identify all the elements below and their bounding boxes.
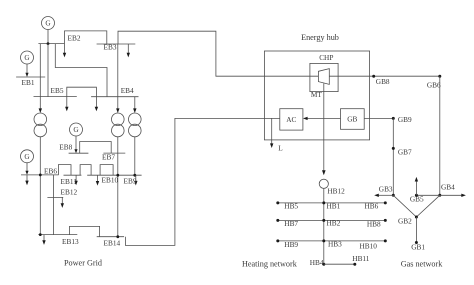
svg-text:HB8: HB8 xyxy=(367,219,381,228)
node dot HB1 xyxy=(322,201,325,204)
heat pipe HB7-HB2-HB8 xyxy=(278,219,386,221)
node dot GB4 xyxy=(438,194,441,197)
wire EB5-EB4 tie with load arrows xyxy=(65,87,98,111)
bus EB5 xyxy=(34,96,77,98)
generator G1 at EB2 xyxy=(42,17,55,30)
wire GB to AC with arrow xyxy=(303,117,341,120)
wire G3 to EB8 xyxy=(74,136,77,153)
load arrow EB2 xyxy=(63,44,66,58)
wire EB8-EB7 tie xyxy=(80,142,112,154)
bus EB13 xyxy=(38,234,77,236)
bus EB11 xyxy=(64,174,82,176)
node dot EB6 xyxy=(39,174,42,177)
svg-text:G: G xyxy=(45,19,51,28)
heat source node HB12 xyxy=(319,179,328,188)
CHP gas line through hub xyxy=(264,75,369,77)
transformer T1 (EB5-EB6) xyxy=(34,113,47,137)
wire G1 to EB2 xyxy=(47,30,49,44)
gas flow arrow GB3 xyxy=(374,194,393,197)
node dot EB9-T3 xyxy=(133,174,136,177)
svg-text:HB7: HB7 xyxy=(284,219,298,228)
svg-text:HB2: HB2 xyxy=(327,219,341,228)
node dot EB13 xyxy=(39,233,42,236)
svg-text:GB6: GB6 xyxy=(427,80,441,89)
wire G4 to EB6 xyxy=(25,163,28,175)
load arrow EB9 xyxy=(134,175,137,185)
svg-text:EB11: EB11 xyxy=(61,177,78,186)
node dot GB6 xyxy=(438,75,441,78)
transformer T3 (EB4-EB9) xyxy=(129,113,142,137)
wire T2 through EB7 to EB9 and EB14 xyxy=(117,137,119,237)
node dot EB9-T2 xyxy=(116,174,119,177)
gas pipe GB2-GB1 xyxy=(415,217,417,243)
svg-text:GB8: GB8 xyxy=(376,77,390,86)
node dot HB4 xyxy=(322,263,325,266)
svg-text:EB5: EB5 xyxy=(51,86,64,95)
wire EB6-EB11 tie xyxy=(58,165,71,176)
wire G2 to EB1 xyxy=(25,64,28,77)
node dot GB7 xyxy=(392,147,395,150)
node dot GB9 xyxy=(392,117,395,120)
load arrow EB3 xyxy=(127,44,130,57)
wire T3 to EB9 xyxy=(134,137,136,175)
wire EB2-EB5 xyxy=(47,44,49,97)
transformer T2 (EB4-EB7) xyxy=(112,113,125,137)
wire EB6-EB12-EB13 xyxy=(53,175,55,235)
wire EB3 to energy hub CHP xyxy=(118,31,264,76)
heat pipe HB4-HB11 xyxy=(324,263,355,265)
node dot HB6 xyxy=(384,201,387,204)
svg-text:GB9: GB9 xyxy=(398,115,412,124)
generator G3 at EB8 xyxy=(70,123,83,136)
svg-text:HB1: HB1 xyxy=(327,201,341,210)
svg-text:Power Grid: Power Grid xyxy=(64,258,102,267)
bus EB6 xyxy=(21,174,59,176)
load arrow EB6 xyxy=(25,175,28,185)
node dot GB8 xyxy=(372,75,375,78)
svg-text:GB5: GB5 xyxy=(410,194,424,203)
GB box xyxy=(341,109,365,130)
svg-text:HB4: HB4 xyxy=(310,258,324,267)
node dot HB3 xyxy=(322,239,325,242)
svg-text:L: L xyxy=(278,143,283,152)
heat pipe HB5-HB1-HB6 xyxy=(278,202,386,204)
svg-text:G: G xyxy=(73,125,79,134)
heat trunk HB12-HB4 xyxy=(323,188,325,264)
gas pipe GB4-GB2 xyxy=(416,195,439,217)
svg-text:CHP: CHP xyxy=(319,53,333,62)
bus EB8 xyxy=(69,152,89,154)
arrow into transformer T1 xyxy=(39,108,42,113)
CHP box xyxy=(310,63,338,91)
node dot HB2 xyxy=(322,219,325,222)
wire T1 to EB6 and EB6-EB13 xyxy=(39,137,41,235)
svg-text:HB9: HB9 xyxy=(284,240,298,249)
load L arrow xyxy=(270,118,273,148)
node dot HB11 xyxy=(353,263,356,266)
svg-text:EB10: EB10 xyxy=(102,175,119,184)
gas pipe GB8-GB6 xyxy=(370,75,440,77)
bus EB2 xyxy=(38,43,64,45)
microturbine MT symbol xyxy=(318,69,329,85)
node dot GB5 xyxy=(415,194,418,197)
heat wire MT to HB12 xyxy=(322,84,326,176)
bus EB10-EB9 xyxy=(87,174,141,176)
svg-text:EB3: EB3 xyxy=(104,43,117,52)
energy hub box xyxy=(264,51,369,140)
arrow into transformer T3 xyxy=(133,108,136,113)
AC box xyxy=(280,109,303,130)
node dot HB7 xyxy=(276,219,279,222)
svg-text:HB10: HB10 xyxy=(360,242,378,251)
node dot HB8 xyxy=(384,219,387,222)
svg-text:G: G xyxy=(24,54,29,62)
bus EB1 xyxy=(16,76,45,78)
generator G4 at EB6 xyxy=(21,150,34,163)
svg-text:EB8: EB8 xyxy=(59,143,72,152)
load arrow EB10 xyxy=(96,175,99,185)
svg-text:EB2: EB2 xyxy=(68,34,81,43)
svg-text:GB3: GB3 xyxy=(379,184,393,193)
node dot GB1 xyxy=(415,241,418,244)
svg-text:Energy hub: Energy hub xyxy=(301,33,339,42)
svg-text:EB12: EB12 xyxy=(61,187,78,196)
svg-text:G: G xyxy=(24,153,29,161)
gas flow arrow GB5 xyxy=(415,177,418,195)
svg-text:MT: MT xyxy=(311,90,322,99)
node dot G1-EB2 xyxy=(47,42,50,45)
bus EB14 xyxy=(97,236,124,238)
svg-text:GB7: GB7 xyxy=(398,147,412,156)
node dot HB10 xyxy=(384,239,387,242)
svg-text:AC: AC xyxy=(286,115,296,124)
bus EB12 xyxy=(47,196,63,198)
svg-text:HB11: HB11 xyxy=(352,254,370,263)
node dot GB2 xyxy=(415,216,418,219)
svg-text:GB1: GB1 xyxy=(411,242,425,251)
svg-text:EB1: EB1 xyxy=(22,78,35,87)
svg-text:HB6: HB6 xyxy=(365,202,379,211)
svg-text:GB4: GB4 xyxy=(441,182,455,191)
svg-text:EB6: EB6 xyxy=(44,167,57,176)
load arrow EB12 xyxy=(61,197,64,208)
svg-text:Heating network: Heating network xyxy=(242,259,298,268)
svg-text:GB2: GB2 xyxy=(398,217,412,226)
node dot GB3 xyxy=(392,194,395,197)
load arrow EB13 xyxy=(42,235,45,245)
load arrow EB11 xyxy=(74,175,77,185)
node dot HB9 xyxy=(276,239,279,242)
wire EB2-EB3 xyxy=(65,31,107,44)
gas pipe GB5-GB4 xyxy=(416,194,439,196)
wire GB output to GB9 xyxy=(364,117,393,119)
wire EB2-EB1-EB5 and transformer feeder xyxy=(39,44,41,109)
bus EB7 xyxy=(103,152,125,154)
bus EB3 xyxy=(97,43,136,45)
wire EB14 to energy hub AC xyxy=(125,118,279,245)
bus EB4 xyxy=(91,96,138,98)
node dot EB14 xyxy=(116,235,119,238)
heat pipe HB9-HB3-HB10 xyxy=(278,240,386,242)
gas pipe GB3-GB2 xyxy=(393,195,416,217)
generator G2 at EB1 xyxy=(21,51,34,64)
wire EB11-EB10 tie xyxy=(80,165,91,176)
arrow into transformer T2 xyxy=(116,108,119,113)
svg-text:GB: GB xyxy=(347,115,357,124)
svg-text:EB4: EB4 xyxy=(121,86,134,95)
wire EB2-EB4 xyxy=(55,44,107,97)
wire EB13-EB14 tie xyxy=(70,226,100,236)
gas pipe GB6-GB4 xyxy=(439,76,441,195)
node dot HB5 xyxy=(276,201,279,204)
svg-text:EB9: EB9 xyxy=(124,176,137,185)
wire EB3-EB4-transformer T2 chain xyxy=(117,44,119,109)
svg-text:HB5: HB5 xyxy=(284,202,298,211)
svg-text:Gas network: Gas network xyxy=(401,259,444,268)
gas pipe GB9-GB7-GB3 xyxy=(392,118,394,195)
gas flow arrow GB4 xyxy=(440,194,466,197)
wire EB4 to transformer T3 xyxy=(134,97,136,109)
svg-text:HB3: HB3 xyxy=(328,239,342,248)
wire EB10-EB9 tie xyxy=(100,165,113,176)
svg-text:EB7: EB7 xyxy=(102,152,115,161)
svg-text:EB13: EB13 xyxy=(62,237,79,246)
svg-text:HB12: HB12 xyxy=(327,186,345,195)
svg-text:EB14: EB14 xyxy=(104,239,121,248)
